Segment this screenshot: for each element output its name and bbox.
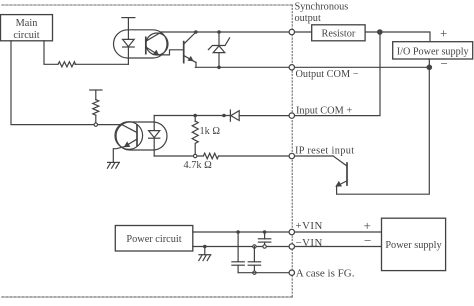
svg-text:Synchronous: Synchronous [295, 1, 349, 12]
Main circuit box [1, 15, 53, 41]
svg-text:Main: Main [16, 18, 38, 29]
LED1 inside PC1 [123, 18, 135, 65]
terminal A case FG [289, 270, 294, 275]
junction dot C3 top [253, 245, 256, 248]
junction dot C3 bottom [253, 271, 256, 274]
junction dot anode rail at 1k [193, 114, 197, 118]
junction dot C1 top [263, 230, 267, 234]
wire Main circuit left lead [11, 41, 122, 125]
svg-text:Output COM −: Output COM − [296, 69, 359, 80]
svg-text:−: − [364, 233, 371, 248]
transistor Q1 [184, 32, 196, 67]
junction dot ground tap [203, 245, 207, 249]
svg-text:Resistor: Resistor [322, 28, 356, 39]
svg-text:circuit: circuit [13, 30, 39, 41]
wire Main circuit right lead [44, 41, 58, 65]
optocoupler PC2 body [115, 122, 167, 150]
optocoupler PC1 body [114, 30, 169, 58]
wire Q2 emitter to COM minus dot [337, 67, 430, 194]
Power circuit box [115, 226, 193, 252]
wire power circuit minus lead [193, 246, 290, 248]
svg-text:−: − [441, 56, 448, 71]
svg-text:IP reset input: IP reset input [295, 145, 354, 156]
wire +VIN to power supply [295, 231, 382, 233]
I/O Power supply box [393, 42, 473, 59]
ground G2 [199, 247, 211, 261]
svg-text:4.7k Ω: 4.7k Ω [184, 160, 213, 171]
terminal -VIN [289, 244, 294, 249]
svg-text:+VIN: +VIN [296, 220, 323, 232]
resistor R1 [58, 62, 76, 67]
junction dot plus rail [377, 29, 383, 35]
phototransistor of PC2 [122, 125, 137, 148]
wire -VIN to power supply [295, 246, 382, 248]
terminal +VIN [289, 229, 294, 234]
Power supply box [382, 218, 446, 270]
junction dot C1 bottom [263, 245, 266, 248]
junction dot COM minus [427, 65, 433, 71]
junction dot top rail at Q1 collector [194, 30, 198, 34]
terminal Synchronous output [289, 29, 294, 34]
wire top rail collector to Synchronous output [162, 31, 290, 33]
terminal Input COM plus [289, 113, 294, 118]
junction dot R2 on wire [94, 123, 97, 126]
wire PC1 emitter to Q1 base [158, 50, 183, 55]
terminal IP reset input [289, 153, 294, 158]
capacitor C3 [248, 247, 260, 273]
junction dot C2 top [236, 230, 240, 234]
phototransistor of PC1 [146, 32, 162, 56]
LED2 inside PC2 [149, 116, 160, 157]
wire emitter rail to Output COM terminal [195, 66, 289, 68]
svg-text:Power supply: Power supply [385, 240, 442, 251]
resistor R3 1k [192, 116, 198, 157]
ground G1 [107, 162, 119, 168]
junction dot top rail at zener [217, 30, 221, 34]
wire IP reset to Q2 [295, 155, 334, 157]
junction dot cathode rail at 1k [194, 154, 197, 157]
wire LED2 cathode rail [154, 155, 203, 157]
svg-text:1k Ω: 1k Ω [200, 126, 221, 137]
terminal Output COM minus [289, 65, 294, 70]
diode D1 [230, 110, 289, 121]
wire R4 to IP reset terminal [219, 155, 290, 157]
module boundary vertical dotted line [291, 5, 293, 297]
wire terminal to Resistor box [295, 31, 312, 33]
wire R1 to LED1 cathode [75, 63, 128, 65]
svg-text:I/O Power supply: I/O Power supply [397, 47, 470, 58]
wire power circuit plus lead [193, 231, 290, 233]
capacitor C1 [258, 232, 270, 247]
svg-text:+: + [440, 26, 447, 41]
junction dot emitter rail at zener [217, 66, 221, 70]
Resistor box [312, 25, 365, 41]
wire FG bottom [238, 272, 289, 274]
transistor Q2 [334, 156, 348, 187]
label Synchronous output [295, 1, 349, 23]
zener diode ZD1 [208, 32, 229, 67]
wire LED2 anode rail [154, 115, 230, 117]
module boundary bottom dashed line [2, 296, 293, 298]
capacitor C2 [232, 232, 244, 273]
module boundary top dashed line [2, 4, 293, 6]
resistor R4 4.7k [203, 153, 218, 159]
wire PC2 emitter to ground [113, 147, 124, 163]
svg-text:Input COM +: Input COM + [296, 105, 352, 116]
terminal bar above LED1 [122, 17, 135, 19]
svg-text:output: output [295, 13, 321, 24]
wire Input COM to plus rail [295, 32, 380, 116]
svg-text:+: + [364, 218, 371, 233]
svg-text:Power circuit: Power circuit [126, 234, 181, 245]
svg-text:A case is FG.: A case is FG. [296, 268, 355, 280]
wire Resistor box to IO supply plus [365, 32, 430, 42]
wire Output COM right segment [295, 66, 429, 68]
resistor R2 pull-up [90, 90, 102, 125]
junction dot before diode D1 [222, 114, 226, 118]
wire IO supply minus lead [428, 59, 430, 67]
